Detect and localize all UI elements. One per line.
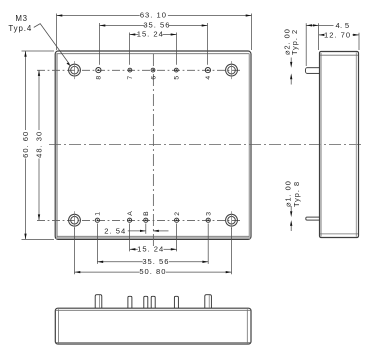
dim dia2.00 arrows (290, 62, 292, 68)
pin 5 (174, 68, 181, 79)
svg-text:15. 24: 15. 24 (137, 244, 164, 253)
pin 1 (95, 211, 102, 222)
svg-text:48. 30: 48. 30 (34, 131, 43, 158)
svg-text:Typ. 8: Typ. 8 (292, 181, 301, 207)
dim 35.56 extension lines (99, 23, 101, 65)
svg-text:2: 2 (174, 211, 181, 216)
dim 50.80 arrows (75, 271, 81, 273)
pin 2 (174, 211, 181, 222)
dim 63.10 line (57, 15, 140, 17)
bottom view pin column 4/3 (dia 2.00) (205, 295, 212, 308)
dim 2.54 arrows (140, 230, 146, 232)
dim 60.60 extension lines (22, 50, 55, 52)
bottom view bottom inner edge (56, 341, 251, 343)
dim 60.60 arrows (24, 51, 26, 57)
dim 15.24 line (130, 34, 139, 36)
front view bottom inner edge (57, 235, 249, 237)
bottom view right inner edge (246, 309, 248, 343)
pin 8 (96, 68, 103, 80)
dim 63.10 arrows (57, 14, 63, 16)
dim 15.24 bottom extension lines (129, 224, 131, 252)
svg-text:63. 10: 63. 10 (140, 11, 167, 20)
pin 6 (150, 68, 157, 79)
bottom view body outline (55, 308, 251, 344)
label M3 Typ.4 (8, 14, 32, 33)
pin B (143, 210, 150, 222)
dim 15.24 bottom arrows (130, 248, 136, 250)
dim 15.24 arrows (130, 33, 136, 35)
svg-text:15. 24: 15. 24 (137, 30, 164, 39)
dim 15.24 bottom line (130, 248, 138, 250)
dim 35.56 line (100, 25, 145, 27)
dim 48.30 line (38, 70, 40, 130)
bottom view left inner edge (57, 309, 59, 343)
svg-text:2. 54: 2. 54 (104, 227, 126, 236)
dim 12.70 arrows (319, 34, 325, 36)
front view right inner edge (248, 54, 250, 238)
mounting hole top-right (M3) (226, 61, 238, 79)
side view right inner edge (355, 53, 357, 237)
side view bottom inner edge (320, 233, 358, 235)
dim 48.30 arrows (38, 70, 40, 76)
dim 35.56 bottom extension lines (96, 224, 98, 264)
svg-text:7: 7 (127, 75, 134, 80)
top pin row centerline (37, 69, 241, 71)
front view body outline (55, 51, 251, 239)
svg-text:12. 70: 12. 70 (324, 30, 351, 39)
bottom view pin column 8/1 (dia 2.00) (95, 295, 102, 308)
dim 4.5 extension lines (305, 23, 307, 66)
dim 50.80 extension lines (74, 228, 76, 275)
svg-text:3: 3 (206, 211, 213, 216)
front view bottom shadow edge (56, 237, 250, 239)
front view left shadow edge (56, 54, 58, 239)
dim dia2.00 lines (290, 58, 292, 62)
svg-text:35. 56: 35. 56 (142, 257, 169, 266)
svg-text:M3: M3 (15, 14, 28, 23)
bottom view pin column 5/2 (174, 296, 178, 308)
svg-text:Typ.4: Typ.4 (8, 24, 32, 33)
side view top pin (dia 2.00) (305, 68, 319, 74)
M3 leader arrowhead (67, 62, 71, 66)
pin A (127, 210, 134, 222)
bottom view pin column 7/A (128, 296, 132, 308)
dim 35.56 bottom arrows (97, 261, 103, 263)
dim 63.10 extension lines (56, 14, 58, 51)
pin 7 (127, 68, 134, 79)
dim 35.56 arrows (100, 24, 106, 26)
pin 3 (206, 211, 213, 222)
pin 4 (205, 68, 212, 80)
horizontal mid centerline (49, 144, 364, 146)
side view bottom pin (dia 1.00) (306, 217, 320, 220)
vertical mid centerline (152, 54, 154, 248)
svg-text:A: A (127, 210, 134, 216)
front view top inner edge (57, 53, 250, 55)
svg-text:8: 8 (96, 75, 103, 80)
dim 12.70 extension line (358, 33, 360, 50)
dim 12.70 line (319, 34, 323, 36)
dim 2.54 line (128, 230, 146, 232)
side view left shadow edge (320, 53, 322, 237)
dim dia1.00 lines (290, 206, 292, 211)
svg-text:4: 4 (205, 75, 212, 80)
svg-text:35. 56: 35. 56 (143, 21, 170, 30)
side view top inner edge (320, 54, 358, 56)
dim 2.54 extension line from pin B (145, 224, 147, 234)
side view body outline (320, 52, 359, 238)
bottom view pin column B (144, 296, 148, 308)
mounting hole top-left (M3) (69, 61, 81, 79)
dim 60.60 line (25, 51, 27, 130)
dim dia1.00 arrows (290, 211, 292, 217)
svg-text:Typ. 2: Typ. 2 (290, 29, 299, 55)
svg-text:5: 5 (174, 75, 181, 80)
bottom view pin column 6 (151, 296, 155, 308)
bottom view top inner edge (56, 309, 251, 311)
svg-text:B: B (143, 210, 150, 216)
dim 4.5 line (306, 24, 318, 26)
svg-text:6: 6 (150, 75, 157, 80)
bottom pin row centerline (37, 219, 241, 221)
dim 50.80 line (75, 271, 140, 273)
dim 35.56 bottom line (97, 261, 142, 263)
svg-text:4. 5: 4. 5 (336, 21, 350, 30)
M3 leader line (34, 24, 70, 65)
dim 4.5 arrows (306, 24, 312, 26)
mounting hole bottom-right (M3) (226, 211, 238, 229)
svg-text:60. 60: 60. 60 (21, 131, 30, 158)
svg-text:1: 1 (95, 211, 102, 216)
svg-text:50. 80: 50. 80 (139, 267, 166, 276)
dim 15.24 extension lines (129, 33, 131, 65)
mounting hole bottom-left (M3) (69, 211, 81, 229)
